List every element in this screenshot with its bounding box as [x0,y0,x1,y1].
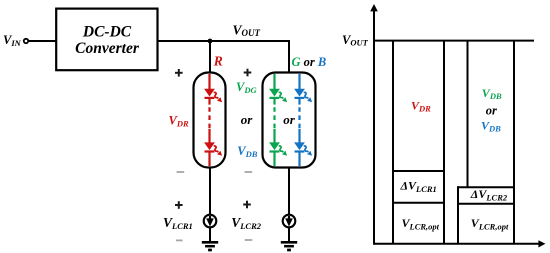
current source I2 [283,215,296,228]
label VOUT [233,22,261,38]
svg-text:VLCR2: VLCR2 [231,215,262,231]
svg-text:or: or [486,103,497,117]
label + (VLCR2) [243,201,251,209]
label VDR [169,113,189,128]
label minus (VLCR1) [176,239,183,241]
svg-text:ΔVLCR2: ΔVLCR2 [470,187,508,202]
svg-text:VDB: VDB [481,118,501,133]
chart bar 1 divider (top of delta VLCR1) [393,170,444,172]
wire: red string to current source 1 [209,167,211,215]
green chain cathode wire [273,152,275,166]
label + (VLCR1) [175,201,183,209]
chart label VLCR,opt (bar 1) [402,216,440,231]
ground (under I1) [202,242,218,250]
label VLCR2 [231,215,262,231]
label minus (red string cathode) [177,171,185,173]
chart label VOUT [342,33,369,48]
dashed wire between red LEDs [208,98,210,143]
red string cathode wire [208,152,210,166]
red string anode wire [208,74,210,89]
dashed wire between green LEDs [273,98,275,143]
svg-text:VLCR,opt: VLCR,opt [402,216,440,231]
label minus (VLCR2) [245,239,253,241]
junction node at red string [208,39,213,44]
green chain anode wire [273,74,275,89]
dashed wire between blue LEDs [298,98,300,143]
svg-text:VIN: VIN [3,33,22,48]
svg-text:VOUT: VOUT [233,22,261,38]
svg-text:or: or [241,112,254,127]
svg-text:VDG: VDG [236,80,257,95]
green/blue LED string module outline [263,73,316,168]
LED D2 (red) [204,142,222,155]
svg-text:or: or [283,112,296,127]
svg-text:VDR: VDR [411,98,431,113]
label or (between VDG and VDB) [241,112,254,127]
LED D1 (red) [204,89,222,102]
chart x-axis [374,240,545,247]
LED D6 (blue) [294,142,312,155]
svg-text:ΔVLCR1: ΔVLCR1 [400,179,437,194]
label + (G/B string anode) [244,69,252,77]
svg-text:R: R [213,54,223,69]
label R [213,54,223,69]
DC-DC converter block [56,9,157,71]
chart label VDB (green) [482,86,502,101]
wire: corner down to green/blue LED string [288,41,290,73]
chart bar 2 divider (top of delta VLCR2) [458,186,514,188]
chart bar 1 divider (top of VLCR,opt) [393,202,444,204]
chart label delta VLCR2 [470,187,508,202]
chart y-axis [370,4,378,245]
LED D4 (green) [269,142,287,155]
label + (red string anode) [175,69,183,77]
chart bar 2 outline (upper section) [468,41,515,244]
wire: converter output to node VOUT [158,40,290,42]
wire: node down to red LED string [209,41,211,73]
wire: G/B string to current source 2 [288,167,290,215]
label minus (G/B string cathode) [245,171,253,173]
wire: Vin terminal to converter input [28,40,56,42]
svg-text:VDR: VDR [169,113,189,128]
wire: current source 2 to ground [288,227,290,241]
svg-text:VLCR,opt: VLCR,opt [471,216,509,231]
input terminal [24,39,28,43]
chart label VDB (blue) [481,118,501,133]
chart VOUT level line [374,40,534,42]
chart bar 2 outline (lower wide section) [457,186,459,244]
chart label VDR [411,98,431,113]
chart label delta VLCR1 [400,179,437,194]
red LED string module outline [194,73,226,168]
LED D5 (blue) [294,89,312,102]
label or (inside G/B module) [283,112,296,127]
blue chain anode wire [298,74,300,89]
svg-text:DC-DC: DC-DC [82,24,132,41]
label VIN [3,33,22,48]
svg-text:VDB: VDB [237,144,257,159]
current source I1 [204,215,217,228]
svg-text:Converter: Converter [75,40,140,57]
chart label VLCR,opt (bar 2) [471,216,509,231]
svg-text:VDB: VDB [482,86,502,101]
label VLCR1 [163,215,193,231]
chart bar 2 divider (top of VLCR,opt) [458,203,514,205]
svg-text:G or B: G or B [292,55,327,69]
chart label or [486,103,497,117]
LED D3 (green) [269,89,287,102]
ground (under I2) [281,242,297,250]
label VDB [237,144,257,159]
svg-text:VOUT: VOUT [342,33,369,48]
label VDG [236,80,257,95]
wire: current source 1 to ground [209,227,211,241]
label G or B [292,55,327,69]
blue chain cathode wire [298,152,300,166]
chart bar 1 outline [393,41,444,244]
svg-text:VLCR1: VLCR1 [163,215,193,231]
